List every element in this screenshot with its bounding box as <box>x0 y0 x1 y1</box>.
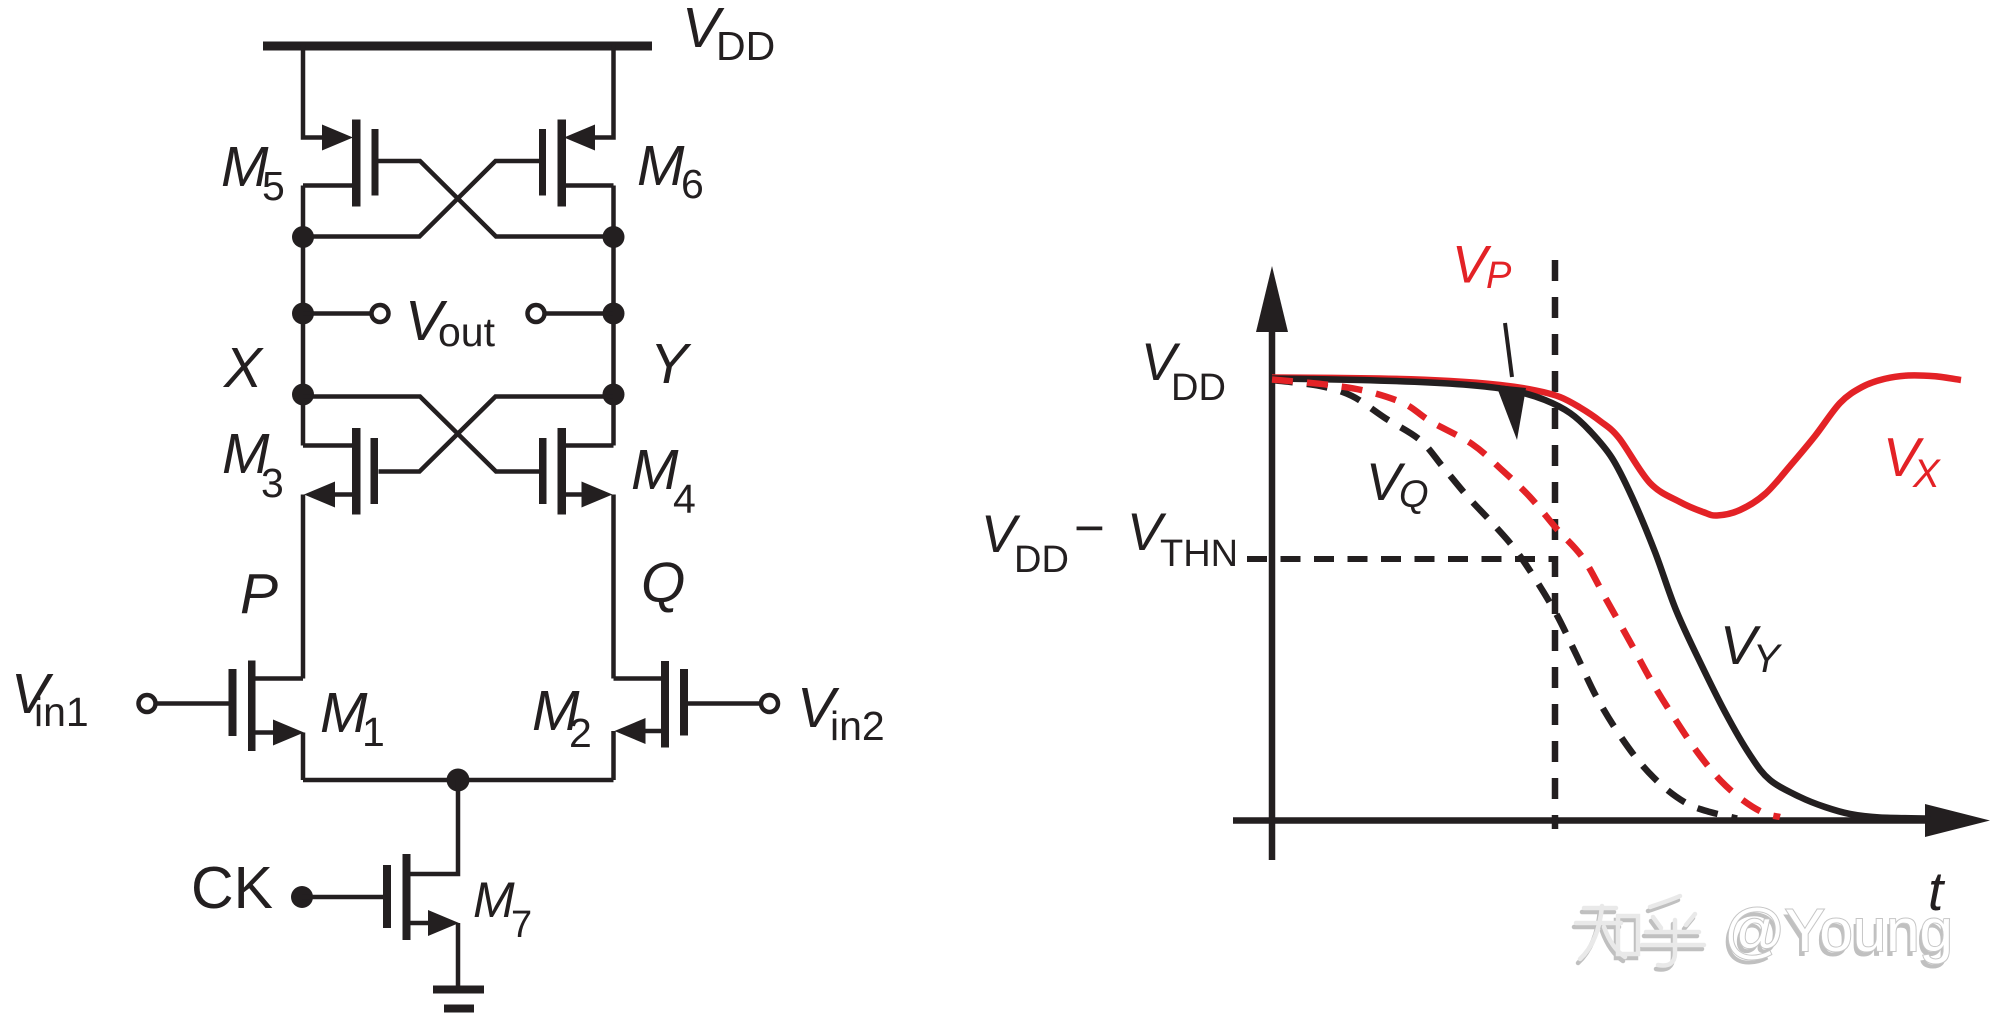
transistor M3 (NMOS) <box>303 428 378 515</box>
svg-text:in2: in2 <box>830 703 885 749</box>
wire M5 gate cross-coupled to node Y <box>379 161 614 237</box>
svg-text:CK: CK <box>191 855 273 921</box>
right Vout terminal <box>528 305 545 322</box>
watermark <box>1574 896 1704 970</box>
transistor M4 (NMOS) <box>539 428 614 515</box>
svg-text:X: X <box>1912 452 1941 496</box>
junction dot node X <box>292 384 314 406</box>
Vin2 label <box>797 676 885 749</box>
wire left Vout lead <box>303 311 371 316</box>
wire node P <box>301 495 306 679</box>
svg-text:P: P <box>240 562 278 626</box>
curve VQ (dashed black) <box>1272 380 1737 819</box>
junction dot M5 drain <box>292 226 314 248</box>
Vin1 label <box>11 662 89 735</box>
curve VX (solid red) <box>1272 375 1961 515</box>
svg-text:DD: DD <box>1014 539 1069 581</box>
wire VDD to M6 source <box>594 45 614 138</box>
left Vout terminal <box>372 305 389 322</box>
svg-text:2: 2 <box>569 710 592 756</box>
M5 label <box>221 135 285 209</box>
wire tail node to M7 drain <box>411 780 459 874</box>
M6 label <box>637 134 704 207</box>
VX label <box>1883 426 1941 496</box>
svg-text:Y: Y <box>650 332 692 396</box>
wire M2 gate to Vin2 <box>688 701 761 706</box>
svg-text:in1: in1 <box>34 689 89 735</box>
CK terminal dot <box>291 886 313 908</box>
svg-text:@Young: @Young <box>1724 897 1953 964</box>
Vout label <box>405 289 496 355</box>
wire VDD to M5 source <box>303 45 323 138</box>
svg-text:Y: Y <box>1753 637 1783 681</box>
wire right Vout lead <box>545 311 614 316</box>
curve VP (dashed red) <box>1272 380 1780 818</box>
svg-text:M: M <box>631 438 679 502</box>
M2 label <box>532 679 592 756</box>
transistor M1 (NMOS) <box>229 661 305 752</box>
x axis <box>1233 804 1990 837</box>
wire M6 drain to node Y column <box>611 186 616 446</box>
wire node X cross-coupled to M4 gate <box>303 397 539 472</box>
junction dot M6 drain <box>603 226 625 248</box>
svg-text:X: X <box>222 336 264 400</box>
svg-text:DD: DD <box>716 23 775 69</box>
svg-text:7: 7 <box>511 904 532 946</box>
svg-text:DD: DD <box>1171 367 1226 409</box>
svg-text:3: 3 <box>261 460 284 506</box>
M3 label <box>222 422 284 506</box>
M4 label <box>631 438 696 522</box>
y axis <box>1256 266 1288 860</box>
junction dot node Y <box>603 384 625 406</box>
VDD level label <box>1141 333 1226 409</box>
VDD rail <box>263 42 652 51</box>
wire M7 source to ground <box>456 923 461 986</box>
dashed level line VDD-VTHN <box>1247 556 1553 562</box>
wire node Q <box>611 495 616 679</box>
junction dot right Vout tap <box>603 303 625 325</box>
transistor M6 (PMOS) <box>539 120 614 207</box>
VP pointer arrow <box>1496 323 1526 440</box>
VDD label <box>682 0 775 69</box>
svg-text:6: 6 <box>681 161 704 207</box>
svg-text:4: 4 <box>673 476 696 522</box>
wire M6 gate cross-coupled to node X <box>303 161 539 237</box>
wire Vin1 to M1 gate <box>156 701 229 706</box>
dashed vertical time line <box>1552 260 1559 829</box>
wire node Y cross-coupled to M3 gate <box>379 397 614 472</box>
svg-text:M: M <box>637 134 685 198</box>
wire CK to M7 gate <box>302 895 383 900</box>
svg-text:1: 1 <box>362 709 385 755</box>
svg-text:THN: THN <box>1160 533 1238 575</box>
VY label <box>1720 614 1783 681</box>
ground <box>433 990 484 1009</box>
Vin2 input terminal <box>761 695 778 712</box>
junction dot tail node <box>447 769 470 792</box>
M7 label <box>473 872 532 946</box>
Vin1 input terminal <box>139 695 156 712</box>
svg-text:Q: Q <box>1399 474 1429 516</box>
transistor M5 (PMOS) <box>303 120 379 207</box>
wire M5 drain to node X column <box>301 186 306 446</box>
wire M1 source down to tail <box>301 733 306 781</box>
transistor M7 (NMOS) <box>383 854 459 940</box>
curve VY (solid black) <box>1272 379 1930 819</box>
svg-text:M: M <box>320 681 368 745</box>
svg-text:5: 5 <box>262 163 285 209</box>
svg-text:P: P <box>1486 255 1512 297</box>
svg-text:−: − <box>1074 499 1105 558</box>
M1 label <box>320 681 385 755</box>
svg-text:Q: Q <box>641 551 685 615</box>
tail wire <box>303 778 614 783</box>
junction dot left Vout tap <box>292 303 314 325</box>
VP label <box>1452 236 1512 298</box>
VDD-VTHN level label <box>981 499 1238 581</box>
wire M2 source down to tail <box>611 731 616 780</box>
svg-text:out: out <box>438 309 496 355</box>
svg-text:M: M <box>473 872 515 928</box>
transistor M2 (NMOS) <box>614 661 689 748</box>
VQ label <box>1366 453 1429 516</box>
